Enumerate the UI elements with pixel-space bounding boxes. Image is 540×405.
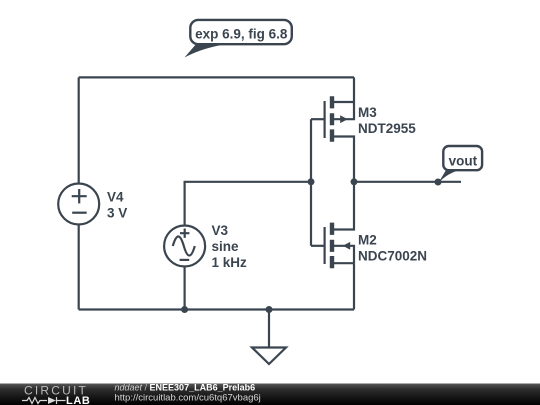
svg-text:nddaet / ENEE307_LAB6_Prelab6: nddaet / ENEE307_LAB6_Prelab6: [115, 383, 256, 393]
wire top rail: [79, 76, 354, 78]
annotation callout exp 6.9 fig 6.8: [185, 20, 292, 58]
transistor M3 source terminal: [334, 137, 354, 182]
transistor M2 arrow: [343, 242, 350, 250]
wire V3 bottom lead: [184, 267, 186, 310]
voltage source V3: [164, 226, 205, 267]
voltage source V4: [58, 184, 99, 225]
wire bottom rail: [79, 308, 354, 310]
svg-text:M3: M3: [358, 105, 377, 120]
transistor M2 drain terminal: [334, 182, 354, 230]
V3 plus sign: [180, 229, 189, 238]
node vout tap: [435, 179, 442, 186]
wire M3 drain riser: [353, 77, 355, 102]
V3 minus sign: [180, 259, 190, 261]
svg-text:3 V: 3 V: [107, 206, 127, 221]
transistor M2 source terminal: [334, 262, 354, 264]
V3 sine wave: [173, 237, 195, 256]
svg-text:exp 6.9, fig 6.8: exp 6.9, fig 6.8: [195, 27, 288, 42]
transistor M3 channel segments: [330, 96, 334, 141]
node junction ground: [266, 306, 273, 313]
wire M2 source riser: [353, 263, 355, 309]
wire left rail lower: [78, 225, 80, 310]
node junction gate bus: [308, 178, 315, 185]
svg-text:1 kHz: 1 kHz: [212, 255, 248, 270]
wire left rail upper: [78, 77, 80, 183]
svg-text:V4: V4: [107, 190, 124, 205]
transistor M3 gate lead: [311, 118, 324, 120]
transistor M3 body tie: [334, 102, 354, 119]
wire output net: [354, 181, 461, 183]
ground stem: [268, 310, 270, 348]
transistor M3 arrow: [340, 115, 347, 123]
svg-text:NDC7002N: NDC7002N: [358, 249, 427, 264]
svg-text:M2: M2: [358, 233, 377, 248]
svg-text:sine: sine: [212, 239, 240, 254]
transistor M2 gate lead: [311, 245, 324, 247]
footer bar background: [0, 384, 540, 405]
ground triangle: [252, 348, 286, 365]
flag vout: [438, 146, 482, 184]
logo schematic squiggle resistor and diode: [22, 397, 66, 404]
transistor M2 gate bar: [324, 227, 326, 264]
svg-text:http://circuitlab.com/cu6tq67v: http://circuitlab.com/cu6tq67vbag6j: [115, 393, 261, 404]
wire gate bus: [310, 119, 312, 246]
svg-text:NDT2955: NDT2955: [358, 121, 416, 136]
transistor M2 body tie: [334, 246, 354, 263]
node junction drain bus: [351, 178, 358, 185]
transistor M3 drain terminal: [334, 101, 354, 103]
V4 minus sign: [72, 212, 87, 214]
svg-text:V3: V3: [212, 223, 229, 238]
V4 plus sign: [72, 189, 87, 203]
wire V3 top lead + input net: [185, 182, 311, 226]
svg-text:LAB: LAB: [66, 395, 90, 405]
node junction V3 bottom: [181, 306, 188, 313]
transistor M3 gate bar: [324, 101, 326, 138]
svg-text:vout: vout: [449, 153, 478, 168]
transistor M2 channel segments: [330, 223, 334, 269]
